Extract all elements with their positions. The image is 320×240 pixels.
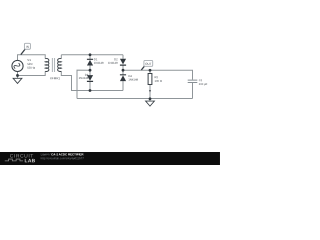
node R2 tap — [149, 69, 152, 72]
wire R2 bottom — [149, 85, 151, 99]
label D2 — [108, 58, 118, 65]
wire output node to C1 — [123, 70, 193, 79]
label C1 — [199, 79, 208, 86]
diode D1 — [87, 59, 93, 66]
node rail-D1 — [89, 53, 92, 56]
wire D2 cathode to D4 cathode — [122, 66, 124, 75]
wire ground2 stem — [149, 99, 151, 101]
svg-text:R2: R2 — [155, 76, 159, 79]
wire secondary bottom to AC2 rail — [61, 71, 123, 90]
footer bar — [0, 152, 220, 165]
svg-text:http://circuitlab.com/c/ky4ykf: http://circuitlab.com/c/ky4ykfzz577 — [41, 156, 85, 160]
label R2 — [154, 76, 161, 83]
wire OUT- bottom rail — [77, 97, 192, 99]
diode D3 — [87, 75, 93, 82]
capacitor C1 — [188, 80, 198, 82]
wire D3 cathode down to AC2 rail — [89, 82, 91, 91]
diode D2 — [120, 59, 126, 66]
svg-text:C1: C1 — [199, 79, 203, 82]
wire V1 bottom to ground stem — [17, 75, 19, 78]
ground GND1 — [13, 78, 22, 83]
wire V1 top to transformer primary top — [18, 55, 46, 61]
ground GND2 — [146, 101, 155, 106]
label V1 value — [27, 58, 35, 70]
svg-text:1N4148: 1N4148 — [94, 62, 104, 65]
resistor R2 — [148, 74, 152, 85]
transformer right coil — [58, 58, 62, 71]
node D1/D3 out- — [89, 69, 92, 72]
flag OUT — [141, 60, 152, 70]
voltage source V1 — [12, 60, 23, 71]
wire R2 top tap — [149, 70, 151, 73]
diode D4 — [120, 74, 126, 81]
wire transformer primary bottom to V1 bottom — [18, 71, 46, 75]
node R2 bottom rail — [149, 97, 152, 100]
wire D2 anode to rail — [122, 55, 124, 59]
label D3 — [79, 74, 89, 80]
svg-text:50 Hz: 50 Hz — [27, 66, 35, 70]
svg-text:1N4148: 1N4148 — [128, 79, 138, 82]
label D1 — [94, 58, 104, 65]
current marker on R2 wire — [149, 90, 151, 92]
wire secondary top to AC1 rail — [60, 55, 62, 59]
node D3 bottom rail — [89, 89, 92, 92]
wire D1 anode to D3 anode — [89, 65, 91, 75]
svg-text:1N4148: 1N4148 — [79, 77, 89, 80]
transformer left coil — [45, 58, 49, 71]
wire D4 anode down to AC2 rail — [122, 81, 124, 90]
CircuitLab logo — [5, 154, 36, 165]
svg-text:XFMR1: XFMR1 — [50, 76, 61, 80]
svg-text:LAB: LAB — [25, 158, 36, 164]
junction dots — [16, 53, 151, 100]
svg-text:1N4148: 1N4148 — [108, 62, 118, 65]
node V1 bottom — [16, 74, 19, 77]
transformer core — [52, 58, 54, 72]
flag IN — [21, 43, 31, 54]
svg-text:100 Ω: 100 Ω — [154, 80, 161, 83]
wire C1 bottom — [191, 82, 193, 98]
svg-text:IN: IN — [26, 45, 29, 49]
svg-text:OUT: OUT — [145, 62, 152, 66]
wire D1 cathode to rail — [89, 55, 91, 59]
wire AC1 top rail — [61, 54, 123, 56]
node D2/D4 out+ — [122, 69, 125, 72]
svg-text:100 µF: 100 µF — [199, 83, 208, 86]
wire node OUT- from D1/D3 junction down left — [77, 70, 90, 98]
label D4 — [128, 75, 138, 82]
